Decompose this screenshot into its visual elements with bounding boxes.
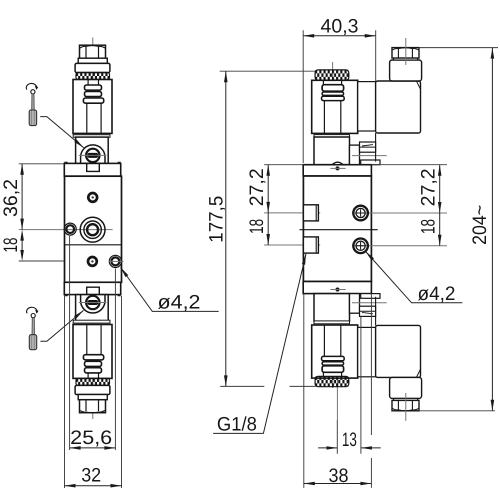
- DIN connector box (right view bottom): [376, 297, 421, 378]
- valve body (right view): [303, 176, 371, 282]
- leader G1/8: [213, 254, 306, 434]
- dim 40,3 line: [303, 34, 376, 38]
- port centerline horizontal (left view): [19, 229, 113, 231]
- svg-text:204~: 204~: [469, 205, 491, 245]
- dim 25,6 extension lines: [70, 236, 116, 450]
- centerline vertical left view: [92, 38, 94, 420]
- valve body (left view): [65, 176, 122, 282]
- armature housing (left view top): [76, 137, 109, 163]
- connector stem (right view top): [350, 145, 360, 165]
- tube body (right view bottom): [324, 325, 340, 356]
- hex nut bottom (left view): [80, 400, 106, 413]
- upper ring (left view top): [75, 63, 110, 72]
- boss centerline 1 (right view): [264, 212, 320, 214]
- dim 27,2 left extension lines: [264, 164, 303, 166]
- tube body (left view top): [87, 103, 101, 132]
- leader diameter 4,2 (left view): [121, 267, 219, 311]
- body parting line (left view): [65, 244, 122, 246]
- svg-text:18: 18: [418, 219, 440, 234]
- svg-text:18: 18: [246, 219, 268, 234]
- dim 177,5 extension lines: [220, 71, 315, 386]
- override arch (left view top): [81, 145, 105, 163]
- svg-text:27,2: 27,2: [418, 168, 440, 206]
- body centerline (right view): [336, 161, 338, 420]
- svg-text:G1/8: G1/8: [217, 414, 257, 436]
- knurled ring top (right view): [315, 70, 349, 80]
- RIGHT VIEW GROUP: [264, 38, 447, 421]
- tube ring 1 (right view top): [322, 85, 344, 92]
- coil bottom band (right view top): [314, 135, 350, 138]
- tube ring 3 (right view top): [322, 96, 345, 100]
- dim 27,2 left line: [266, 165, 270, 245]
- main port G1/8 (left view): [80, 217, 105, 242]
- leader from screwdriver top to override: [40, 117, 83, 148]
- screw centerline 1 (right view): [352, 212, 447, 214]
- tube ring 1 (right view bottom): [322, 366, 344, 373]
- tube ring 3 (right view bottom): [322, 356, 345, 360]
- dim 204 extension lines: [419, 48, 498, 411]
- svg-text:38: 38: [329, 465, 349, 487]
- lower ring (left view bottom): [75, 385, 110, 394]
- connector centerline (right view top): [405, 38, 407, 65]
- connector tab (right view top): [360, 142, 376, 152]
- dim 38 extension lines: [304, 294, 372, 488]
- dim 38 line: [304, 482, 372, 486]
- dim 177,5 line: [224, 71, 228, 386]
- connector thin line (right view top): [352, 155, 387, 157]
- dim 36,2 line: [20, 164, 24, 230]
- tube neck (right view bottom): [323, 372, 341, 376]
- tube neck (left view top): [88, 80, 98, 86]
- coil side extension (right view bottom): [358, 327, 376, 376]
- bottom screw (left view): [88, 257, 97, 266]
- connector foot plate (right view top): [361, 160, 380, 165]
- svg-text:36,2: 36,2: [0, 179, 22, 217]
- DIN connector box (right view top): [376, 81, 421, 162]
- override centerline (left view top): [79, 154, 107, 156]
- armature housing (right view top): [314, 137, 350, 165]
- screwdriver symbol top: [26, 83, 38, 125]
- manual override button (left view bottom): [86, 296, 99, 309]
- valve bottom plate (left view): [64, 282, 120, 296]
- override slot (left view bottom): [87, 300, 98, 305]
- coil bottom band (left view top): [73, 135, 110, 138]
- connector tab (right view bottom): [360, 306, 376, 316]
- valve top plate (right view): [303, 162, 371, 176]
- dim 13 extension lines: [337, 317, 361, 454]
- override centerline (left view bottom): [79, 302, 107, 304]
- tube body (right view top): [324, 101, 340, 134]
- override slot (left view top): [87, 153, 98, 158]
- svg-text:ø4,2: ø4,2: [158, 291, 201, 313]
- dim 18 line (left view): [20, 230, 24, 261]
- gland flange (right view top): [394, 58, 418, 60]
- tube neck (right view top): [323, 80, 341, 84]
- dim 27,2 right extension lines: [371, 164, 447, 166]
- hole 4.2 (left view): [109, 255, 124, 267]
- svg-text:177,5: 177,5: [205, 196, 227, 243]
- gland hex nut (right view top): [392, 48, 419, 58]
- socket screw 1 (right view): [353, 206, 368, 221]
- plate screw dot bottom (right view): [330, 288, 345, 292]
- hex nut top (left view): [80, 45, 106, 58]
- port boss 2 (right view): [303, 237, 318, 253]
- tube ring 2 (left view bottom): [85, 361, 102, 366]
- plate screw dot top (right view): [330, 166, 345, 170]
- dim 13 line: [318, 447, 381, 449]
- leader from screwdriver bottom to override: [40, 310, 83, 341]
- tube ring 1 (left view bottom): [85, 368, 102, 373]
- svg-text:18: 18: [0, 238, 22, 253]
- dim 32 line: [65, 484, 122, 488]
- LEFT VIEW GROUP: [19, 38, 124, 420]
- manual override button (left view top): [86, 149, 99, 162]
- knurled ring bottom (left view): [76, 378, 110, 385]
- dim 204 line: [491, 48, 495, 411]
- connector stem (right view bottom): [350, 294, 360, 314]
- left port (left view): [64, 223, 76, 235]
- tube ring 2 (left view top): [85, 92, 102, 97]
- coil body (left view top solenoid): [73, 80, 112, 134]
- dim 27,2 right line: [438, 165, 442, 246]
- coil body (right view bottom solenoid): [312, 325, 358, 378]
- valve top plate (left view): [64, 162, 120, 176]
- coil body (left view bottom solenoid): [73, 325, 112, 379]
- knurled ring top (left view): [76, 73, 110, 80]
- leader diameter 4,2 (right view): [366, 251, 463, 302]
- solenoid centerline bottom (right view): [332, 290, 334, 388]
- connector foot plate (right view bottom): [361, 294, 380, 299]
- cable gland body (right view bottom): [390, 377, 422, 398]
- connector thin line (right view bottom): [352, 302, 387, 304]
- tube ring 3 (left view bottom): [83, 355, 103, 360]
- body mid line (right view): [300, 229, 378, 231]
- connector centerline (right view bottom): [405, 393, 407, 421]
- dim 40,3 extension lines: [303, 30, 376, 163]
- gland hex nut (right view bottom): [392, 400, 419, 410]
- coil top band (right view bottom): [314, 321, 350, 324]
- tube ring 2 (right view top): [322, 92, 344, 95]
- screwdriver symbol bottom: [27, 307, 39, 349]
- nut flange (left view top): [78, 58, 107, 63]
- coil top band (left view bottom): [73, 320, 110, 323]
- gland flange (right view bottom): [394, 398, 418, 400]
- socket screw 2 (right view): [353, 239, 368, 254]
- coil side extension (right view top): [358, 82, 376, 131]
- top screw (left view): [88, 193, 97, 202]
- boss centerline 2 (right view): [264, 244, 320, 246]
- tube ring 1 (left view top): [85, 85, 102, 90]
- svg-text:ø4,2: ø4,2: [418, 283, 456, 305]
- armature housing (right view bottom): [314, 294, 350, 322]
- svg-text:25,6: 25,6: [70, 427, 112, 449]
- tube ring 3 (left view top): [83, 98, 103, 103]
- svg-text:32: 32: [81, 464, 101, 486]
- valve bottom plate (right view): [303, 282, 371, 297]
- solenoid centerline top (right view): [332, 62, 334, 168]
- knurled ring bottom (right view): [315, 376, 349, 386]
- svg-text:13: 13: [342, 429, 357, 451]
- tube ring 2 (right view bottom): [322, 362, 344, 365]
- nut flange (left view bottom): [78, 395, 107, 400]
- port boss 1 (right view): [303, 205, 318, 221]
- override arch (left view bottom): [76, 295, 109, 321]
- dim 36,2 extension lines: [19, 164, 64, 261]
- tube neck (left view bottom): [88, 373, 98, 379]
- screw centerline 2 (right view): [352, 245, 447, 247]
- dim 32 extension lines: [65, 296, 122, 488]
- cable gland body (right view top): [390, 60, 422, 81]
- dim 25,6 line: [70, 446, 116, 450]
- tube body (left view bottom): [87, 325, 101, 354]
- coil body (right view top solenoid): [312, 80, 358, 133]
- svg-text:27,2: 27,2: [246, 168, 268, 206]
- svg-text:40,3: 40,3: [321, 16, 359, 38]
